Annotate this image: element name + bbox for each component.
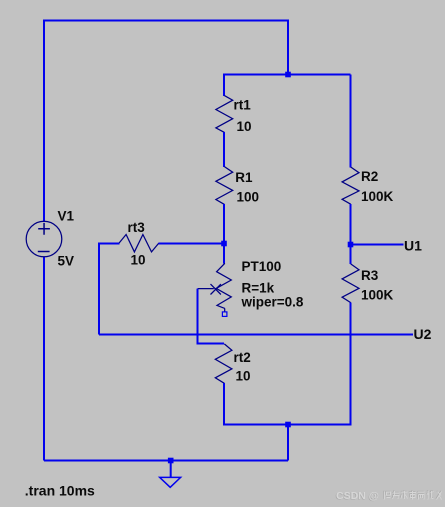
svg-text:10: 10	[131, 253, 146, 268]
svg-text:rt2: rt2	[234, 350, 251, 365]
wire bottom rail	[44, 460, 288, 462]
svg-text:R3: R3	[361, 268, 379, 283]
junction top node	[285, 72, 291, 78]
potentiometer PT100 wiper arrowhead	[211, 284, 221, 294]
wire R1 bottom to mid node	[223, 204, 225, 244]
potentiometer PT100 unconnected pin square	[222, 312, 227, 317]
junction U1 node	[348, 242, 354, 248]
resistor R2	[342, 167, 359, 204]
wire rt1 to R1	[223, 132, 225, 167]
wire ground stub	[170, 461, 172, 478]
wire rt3 left lead and down	[99, 244, 120, 335]
wire R3 bottom lead	[288, 303, 351, 425]
svg-text:.tran 10ms: .tran 10ms	[25, 483, 95, 499]
resistor R1	[216, 167, 233, 205]
svg-text:5V: 5V	[58, 254, 75, 269]
voltage source V1 circle	[26, 221, 62, 257]
svg-text:R2: R2	[361, 169, 378, 184]
wire rt3 right lead	[159, 243, 225, 245]
junction bottom node	[285, 422, 291, 428]
wire bottom drop	[287, 425, 289, 461]
svg-text:PT100: PT100	[242, 259, 282, 274]
svg-text:100K: 100K	[361, 288, 394, 303]
resistor rt3	[119, 235, 159, 252]
resistor rt1	[216, 96, 233, 133]
svg-text:R1: R1	[235, 170, 253, 185]
potentiometer PT100 body	[216, 263, 231, 308]
junction mid-left node	[221, 241, 227, 247]
wire R2 bottom to U1 node	[350, 204, 352, 245]
svg-text:10: 10	[236, 369, 251, 384]
svg-text:U2: U2	[414, 326, 432, 342]
wire V1 top to top rail to drop	[44, 21, 288, 223]
ground	[160, 477, 181, 487]
svg-text:rt3: rt3	[128, 220, 146, 235]
wire right column top	[350, 75, 352, 168]
wire U1 node to R3 top	[350, 245, 352, 265]
svg-text:R=1k: R=1k	[242, 281, 275, 296]
svg-text:V1: V1	[58, 209, 75, 224]
potentiometer PT100 bottom lead	[224, 308, 226, 312]
wire rt1 top lead	[223, 75, 225, 97]
resistor R3	[342, 264, 359, 303]
wire U2 rail	[99, 334, 413, 336]
wire mid node to PT100 top	[223, 244, 225, 264]
svg-text:100K: 100K	[361, 189, 394, 204]
junction ground node	[168, 458, 174, 464]
wire V1 bottom	[43, 257, 45, 461]
voltage source V1 minus sign	[38, 251, 50, 253]
svg-text:10: 10	[237, 119, 252, 134]
svg-text:wiper=0.8: wiper=0.8	[241, 295, 304, 310]
wire U1 stub	[351, 244, 404, 246]
voltage source V1 plus sign	[38, 223, 50, 235]
svg-text:U1: U1	[404, 238, 422, 254]
svg-text:100: 100	[237, 190, 260, 205]
potentiometer PT100 wiper line	[198, 288, 214, 290]
svg-text:rt1: rt1	[234, 98, 252, 113]
wire wiper to rt2 top	[198, 289, 225, 344]
wire mid rail y=74.5	[223, 74, 351, 76]
resistor rt2	[215, 344, 232, 383]
svg-text:CSDN @: CSDN @	[336, 490, 379, 502]
watermark CSDN @ author	[335, 490, 441, 503]
wire rt2 bottom lead	[224, 383, 288, 425]
